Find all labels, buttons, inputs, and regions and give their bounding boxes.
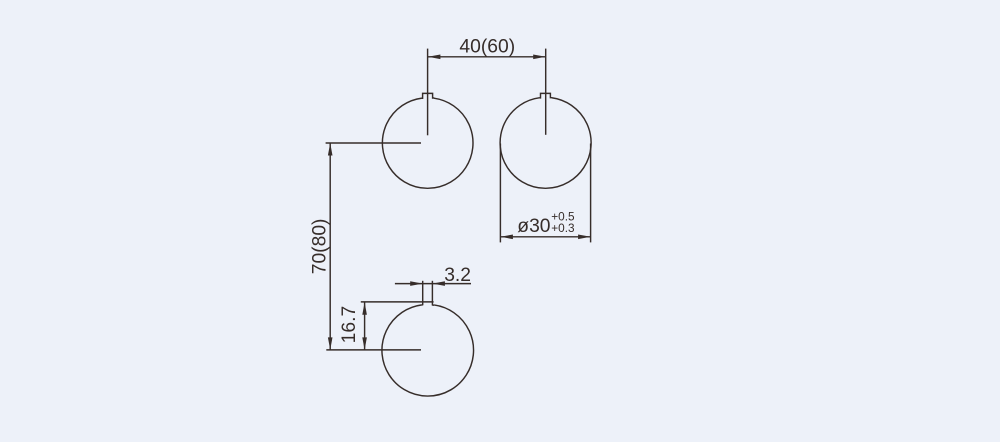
center line / extension line, right hole	[545, 49, 547, 135]
hole circle, bottom (arc with keyway gap)	[382, 305, 474, 396]
dimension line 3.2	[395, 283, 471, 285]
dimension line 40(60)	[428, 56, 546, 58]
keyway notch, top-left hole	[422, 93, 435, 98]
hole circle, top-right (arc with keyway gap)	[500, 98, 591, 189]
svg-text:ø30: ø30	[517, 216, 550, 237]
dimension line dia30	[500, 236, 590, 238]
svg-text:16.7: 16.7	[339, 306, 360, 344]
arrowhead left of dia30	[500, 235, 513, 240]
arrowhead left of 40(60)	[428, 55, 441, 60]
arrowhead top of 70(80)	[328, 143, 333, 156]
keyway slot bottom connectors	[422, 304, 434, 306]
extension line right of dia30	[590, 144, 592, 243]
arrowhead right of dia30	[578, 235, 591, 240]
horizontal center line, bottom hole / bottom extension of 70(80)	[326, 349, 421, 351]
arrowhead bottom of 16.7	[362, 337, 367, 350]
center line / extension line, left hole	[427, 49, 429, 136]
keyway depth line / 16.7 top extension line	[361, 301, 434, 303]
arrowhead bottom of 70(80)	[328, 337, 333, 350]
keyway slot left side / 3.2 extension line left	[422, 281, 424, 306]
svg-text:70(80): 70(80)	[309, 219, 330, 275]
svg-text:40(60): 40(60)	[459, 37, 515, 58]
arrowhead left of 3.2 (pointing right)	[410, 281, 423, 286]
arrowhead right of 3.2 (pointing left)	[432, 281, 445, 286]
keyway slot right side / 3.2 extension line right	[431, 281, 433, 306]
dimension line 16.7 vertical	[364, 302, 366, 350]
hole circle, top-left (arc with keyway gap)	[382, 98, 473, 188]
dimension line 70(80) vertical	[329, 143, 331, 350]
svg-text:+0.3: +0.3	[551, 221, 575, 235]
svg-text:3.2: 3.2	[444, 265, 471, 286]
horizontal center line, top-left hole / top extension of 70(80)	[326, 142, 421, 144]
arrowhead right of 40(60)	[533, 55, 546, 60]
extension line left of dia30	[499, 144, 501, 243]
arrowhead top of 16.7	[362, 302, 367, 315]
keyway notch, top-right hole	[540, 93, 552, 98]
